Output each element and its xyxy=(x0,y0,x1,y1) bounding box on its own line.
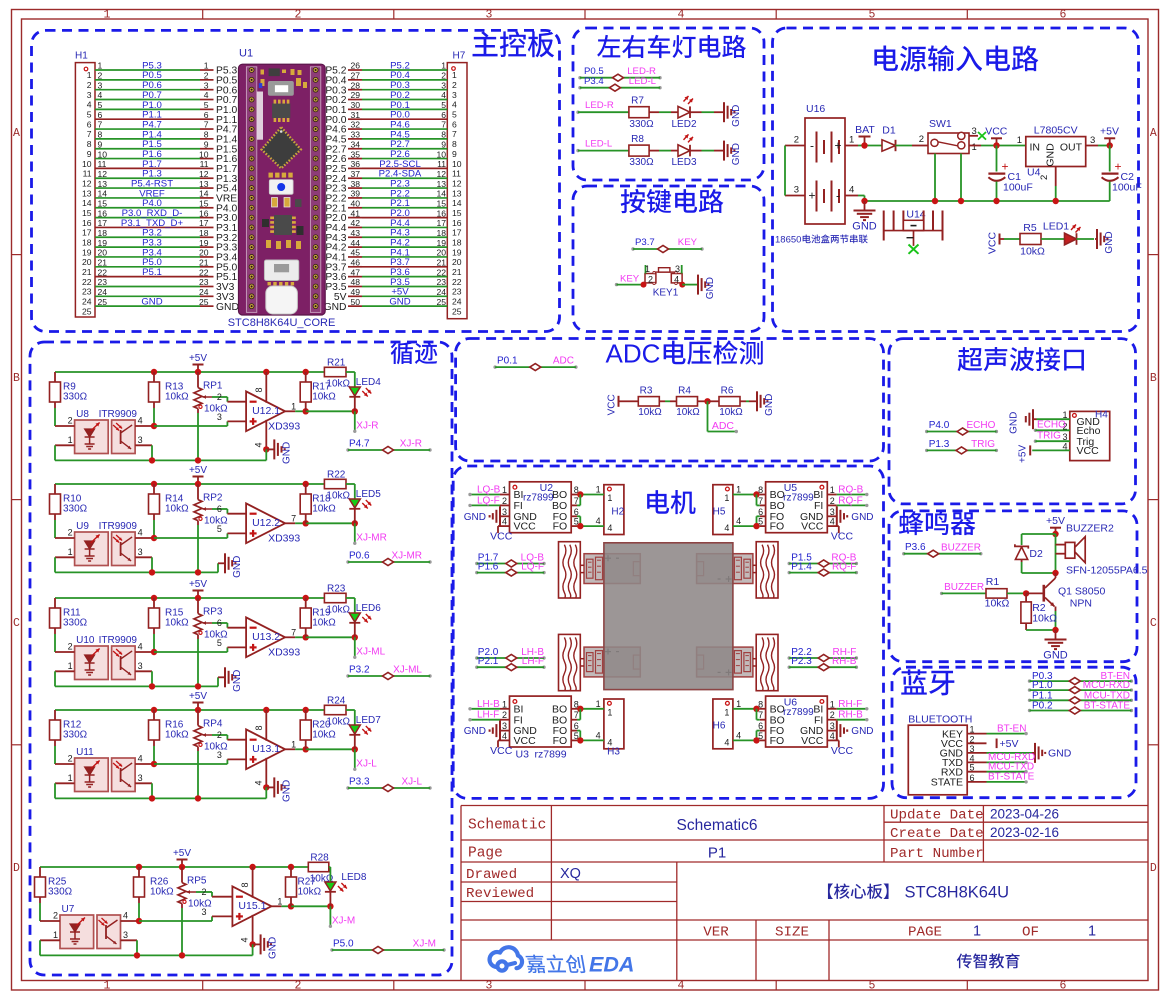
wire R to opto pin2 xyxy=(39,903,41,921)
svg-text:9: 9 xyxy=(98,139,103,149)
svg-text:44: 44 xyxy=(351,238,361,248)
svg-text:6: 6 xyxy=(574,721,579,731)
svg-text:P3.2: P3.2 xyxy=(349,665,370,676)
svg-text:RP5: RP5 xyxy=(187,876,207,887)
JLC EDA logo xyxy=(490,947,522,970)
section box ADC xyxy=(456,339,884,462)
svg-text:24: 24 xyxy=(199,287,209,297)
svg-text:20: 20 xyxy=(199,248,209,258)
wire R21 to LED xyxy=(346,483,355,485)
svg-text:GND: GND xyxy=(852,221,877,233)
svg-text:18: 18 xyxy=(82,237,92,247)
net port P0.3 to BT-EN xyxy=(1028,679,1031,682)
svg-text:GND: GND xyxy=(1048,748,1072,760)
driver GND xyxy=(827,515,837,517)
resistor R17 10k output pullup xyxy=(300,382,311,402)
net port P2.0 to LH-B xyxy=(475,656,478,659)
wire opto pin1 to bottom rail xyxy=(54,783,56,798)
svg-text:1: 1 xyxy=(53,930,58,940)
svg-text:3: 3 xyxy=(830,507,835,517)
svg-text:10kΩ: 10kΩ xyxy=(1032,613,1057,625)
svg-text:12: 12 xyxy=(98,169,108,179)
wire R to opto pin2 xyxy=(54,520,56,538)
car chassis xyxy=(604,543,733,690)
svg-text:XJ-L: XJ-L xyxy=(401,777,422,788)
svg-text:2: 2 xyxy=(68,528,73,538)
svg-text:15: 15 xyxy=(82,208,92,218)
track row +5V rail (R10) xyxy=(55,483,324,485)
svg-text:BAT: BAT xyxy=(855,124,875,136)
comparator U15.1 xyxy=(232,886,271,926)
svg-text:8: 8 xyxy=(254,387,264,392)
no-connect flag on U14 xyxy=(909,245,919,254)
svg-text:19: 19 xyxy=(82,247,92,257)
motor header H2 xyxy=(604,485,624,535)
svg-text:FO: FO xyxy=(553,735,568,747)
svg-text:R28: R28 xyxy=(310,853,329,864)
ground for buzzer xyxy=(1055,630,1057,640)
svg-text:20: 20 xyxy=(82,257,92,267)
power bottom rail xyxy=(865,200,1110,202)
svg-text:24: 24 xyxy=(82,297,92,307)
svg-text:3: 3 xyxy=(217,750,222,760)
svg-text:R5: R5 xyxy=(1023,222,1037,234)
svg-text:1: 1 xyxy=(104,980,111,993)
svg-text:10: 10 xyxy=(199,149,209,159)
svg-text:H6: H6 xyxy=(713,721,726,732)
svg-text:LED-L: LED-L xyxy=(629,76,657,87)
ground for divider xyxy=(755,400,758,402)
resistor R19 10k output pullup xyxy=(300,608,311,628)
svg-text:FO: FO xyxy=(770,735,785,747)
svg-text:U7: U7 xyxy=(62,904,75,915)
svg-text:12: 12 xyxy=(452,178,462,188)
H1 pin 7 wire / net P4.7 xyxy=(95,128,200,130)
svg-text:1: 1 xyxy=(68,435,73,445)
svg-text:3: 3 xyxy=(452,90,457,100)
svg-text:31: 31 xyxy=(351,110,361,120)
svg-text:GND: GND xyxy=(1045,143,1057,167)
svg-text:Q1 S8050: Q1 S8050 xyxy=(1058,586,1105,598)
svg-text:5: 5 xyxy=(869,980,876,993)
svg-text:GND: GND xyxy=(324,302,347,313)
svg-text:1: 1 xyxy=(724,707,729,717)
svg-text:XJ-ML: XJ-ML xyxy=(393,665,422,676)
LED LED8 xyxy=(325,882,336,891)
svg-text:U11: U11 xyxy=(76,747,94,758)
resistor R14 10k pullup xyxy=(149,494,160,514)
potentiometer RP4 10k xyxy=(197,710,199,726)
wire opto pin4 node to comparator plus input xyxy=(154,651,227,653)
svg-text:330Ω: 330Ω xyxy=(63,504,88,515)
H7 pin 21 wire / net P3.7 xyxy=(348,266,362,268)
svg-text:7: 7 xyxy=(87,129,92,139)
svg-text:16: 16 xyxy=(98,208,108,218)
wires wheels to motors xyxy=(580,564,584,566)
svg-text:27: 27 xyxy=(351,71,361,81)
svg-text:25: 25 xyxy=(452,306,462,316)
net flag XJ-L xyxy=(354,749,356,769)
ground at bottom rail xyxy=(217,677,219,686)
LED LED6 xyxy=(349,613,360,622)
net RH-F to driver pin1 xyxy=(827,708,837,710)
svg-text:P1.3: P1.3 xyxy=(929,439,950,450)
title motor xyxy=(647,490,695,514)
driver VCC xyxy=(498,525,510,527)
wire pin4 to bottom rail xyxy=(265,787,267,798)
svg-text:28: 28 xyxy=(351,80,361,90)
svg-text:VCC: VCC xyxy=(831,531,854,543)
optocoupler U8 xyxy=(75,420,109,454)
resistor R13 10k pullup xyxy=(149,382,160,402)
wire battery minus to rail xyxy=(858,195,865,197)
title bluetooth xyxy=(901,669,954,695)
optocoupler U10 xyxy=(75,646,109,680)
svg-text:XJ-MR: XJ-MR xyxy=(391,551,422,562)
motor header H6 xyxy=(713,699,733,749)
svg-text:+5V: +5V xyxy=(189,353,207,364)
svg-text:23: 23 xyxy=(82,287,92,297)
svg-text:RH-B: RH-B xyxy=(832,656,857,667)
svg-text:4: 4 xyxy=(98,90,103,100)
svg-text:14: 14 xyxy=(98,189,108,199)
net MCU-TXD wire xyxy=(987,771,1027,773)
svg-text:1: 1 xyxy=(204,61,209,71)
svg-text:VCC: VCC xyxy=(490,531,513,543)
svg-text:+5V: +5V xyxy=(189,691,207,702)
wire pin4 to bottom rail xyxy=(252,944,254,955)
svg-text:11: 11 xyxy=(452,169,461,179)
svg-text:3: 3 xyxy=(441,80,446,90)
svg-text:3: 3 xyxy=(123,930,128,940)
svg-text:D: D xyxy=(1150,862,1157,875)
svg-text:15: 15 xyxy=(452,208,462,218)
svg-text:VCC: VCC xyxy=(1077,445,1100,457)
svg-text:4: 4 xyxy=(724,523,729,533)
H7 pin 10 wire / net P2.6 xyxy=(348,158,362,160)
resistor R6 10k xyxy=(708,400,720,402)
motor driver U3 rz7899 xyxy=(510,696,572,747)
svg-text:OUT: OUT xyxy=(1060,141,1083,153)
track row +5V rail (R12) xyxy=(55,709,324,711)
svg-text:R8: R8 xyxy=(631,134,644,145)
svg-text:1: 1 xyxy=(830,699,835,709)
net port P3.4 to LED-L xyxy=(578,86,581,89)
svg-text:2: 2 xyxy=(201,887,206,897)
net port P1.1 to MCU-TXD xyxy=(1028,699,1031,702)
net port P1.4 to RQ-F xyxy=(788,571,791,574)
svg-text:1: 1 xyxy=(645,264,650,274)
svg-text:P3.6: P3.6 xyxy=(905,542,926,553)
svg-text:KEY1: KEY1 xyxy=(653,287,679,298)
net port P3.6 to BUZZER xyxy=(902,552,905,555)
wire opto pin4 node to comparator plus input xyxy=(154,537,227,539)
svg-text:10kΩ: 10kΩ xyxy=(165,392,189,403)
svg-text:LED1: LED1 xyxy=(1043,221,1069,233)
svg-text:1: 1 xyxy=(736,699,741,709)
net port P4.7 to XJ-R xyxy=(346,448,349,451)
svg-text:10: 10 xyxy=(452,159,462,169)
svg-text:5: 5 xyxy=(217,638,222,648)
wire battery left loop xyxy=(784,146,786,196)
svg-text:2: 2 xyxy=(295,8,302,21)
svg-text:16: 16 xyxy=(199,208,209,218)
section box motor xyxy=(453,466,883,798)
svg-text:VCC: VCC xyxy=(987,231,999,254)
svg-text:7: 7 xyxy=(291,627,296,637)
svg-text:1: 1 xyxy=(849,135,854,146)
svg-text:XD393: XD393 xyxy=(268,533,300,545)
svg-text:7: 7 xyxy=(574,710,579,720)
svg-text:BUZZER: BUZZER xyxy=(941,542,981,553)
svg-text:P4.7: P4.7 xyxy=(349,439,370,450)
svg-text:1: 1 xyxy=(441,61,446,71)
net TRIG to H4 pin3 xyxy=(1034,440,1037,443)
svg-text:Drawed: Drawed xyxy=(466,867,517,883)
motor header H5 xyxy=(713,485,733,535)
svg-text:1: 1 xyxy=(277,896,282,906)
svg-text:3: 3 xyxy=(502,507,507,517)
svg-text:XJ-M: XJ-M xyxy=(332,915,355,926)
svg-text:GND: GND xyxy=(1009,412,1020,434)
svg-text:330Ω: 330Ω xyxy=(629,119,654,130)
svg-text:H5: H5 xyxy=(713,506,726,517)
driver VCC xyxy=(827,739,839,741)
svg-text:2023-04-26: 2023-04-26 xyxy=(990,807,1059,822)
comparator pin 4 to ground xyxy=(265,420,267,450)
ADC tap wire xyxy=(707,401,709,431)
comparator pin 8 to rail xyxy=(252,867,254,898)
wire opto pin1 to bottom rail xyxy=(39,940,41,955)
H1 pin 14 wire / net VREF xyxy=(95,197,200,199)
track row +5V rail (R9) xyxy=(55,371,324,373)
svg-text:A: A xyxy=(13,127,20,140)
svg-text:3: 3 xyxy=(1090,135,1095,146)
H7 pin 4 wire / net P0.2 xyxy=(348,99,362,101)
svg-text:21: 21 xyxy=(436,258,446,268)
svg-text:35: 35 xyxy=(351,149,361,159)
svg-text:8: 8 xyxy=(98,130,103,140)
net port P3.2 to XJ-ML xyxy=(346,674,349,677)
motor driver U5 rz7899 xyxy=(766,482,828,533)
svg-text:7: 7 xyxy=(758,496,763,506)
wire R21 to LED xyxy=(346,709,355,711)
svg-text:VCC: VCC xyxy=(985,126,1008,138)
net port P2.3 to RH-B xyxy=(788,666,791,669)
svg-text:GND: GND xyxy=(232,556,243,578)
H7 pin 24 wire / net +5V xyxy=(348,295,362,297)
H7 pin 20 wire / net P4.1 xyxy=(348,256,362,258)
H1 pin 22 wire / net P5.1 xyxy=(95,276,200,278)
net ECHO to H4 pin2 xyxy=(1034,429,1037,432)
svg-text:1: 1 xyxy=(291,739,296,749)
H7 pin 15 wire / net P2.1 xyxy=(348,207,362,209)
svg-text:18: 18 xyxy=(98,228,108,238)
header H7 xyxy=(447,63,467,319)
svg-text:BT-EN: BT-EN xyxy=(997,723,1026,734)
svg-text:1: 1 xyxy=(607,493,612,503)
svg-text:LQ-F: LQ-F xyxy=(477,495,500,506)
svg-text:Page: Page xyxy=(468,846,503,862)
svg-text:2023-02-16: 2023-02-16 xyxy=(990,825,1059,840)
comparator output wire xyxy=(285,410,295,412)
svg-text:2: 2 xyxy=(98,71,103,81)
svg-text:LH-F: LH-F xyxy=(522,656,544,667)
svg-text:P1.4: P1.4 xyxy=(791,562,812,573)
svg-text:P5.1: P5.1 xyxy=(142,267,162,278)
svg-text:BLUETOOTH: BLUETOOTH xyxy=(908,713,972,725)
svg-text:6: 6 xyxy=(204,110,209,120)
svg-text:H7: H7 xyxy=(453,51,466,62)
net port P1.5 to RQ-B xyxy=(788,562,791,565)
H1 pin 24 wire / net 3V3 xyxy=(95,295,200,297)
wire pot wiper to comparator minus input xyxy=(212,396,227,398)
svg-text:18: 18 xyxy=(199,228,209,238)
svg-text:10: 10 xyxy=(98,149,108,159)
svg-text:43: 43 xyxy=(351,228,361,238)
svg-text:LED7: LED7 xyxy=(356,715,381,726)
svg-text:4: 4 xyxy=(138,642,143,652)
svg-text:R24: R24 xyxy=(327,696,346,707)
resistor R11 330ohm xyxy=(50,608,61,628)
svg-text:ITR9909: ITR9909 xyxy=(99,635,138,646)
wire pot wiper to comparator minus input xyxy=(212,508,227,510)
title main board xyxy=(473,31,555,57)
svg-text:BT-STATE: BT-STATE xyxy=(1084,701,1131,712)
svg-text:ECHO: ECHO xyxy=(966,420,995,431)
resistor R15 10k pullup xyxy=(149,608,160,628)
svg-text:10: 10 xyxy=(82,159,92,169)
svg-text:50: 50 xyxy=(351,297,361,307)
wire pot wiper to comparator minus input xyxy=(212,734,227,736)
svg-text:LQ-F: LQ-F xyxy=(521,562,544,573)
svg-text:23: 23 xyxy=(199,277,209,287)
svg-text:12: 12 xyxy=(199,169,209,179)
net port P0.6 to XJ-MR xyxy=(346,560,349,563)
svg-text:9: 9 xyxy=(204,139,209,149)
svg-text:GND: GND xyxy=(268,937,279,959)
svg-text:22: 22 xyxy=(199,267,209,277)
svg-text:22: 22 xyxy=(452,277,462,287)
wire opto pin4 node to comparator plus input xyxy=(139,920,212,922)
svg-text:5: 5 xyxy=(869,8,876,21)
H7 pin 23 wire / net P3.5 xyxy=(348,285,362,287)
ground at bottom rail xyxy=(217,563,219,572)
wire R to opto pin2 xyxy=(54,408,56,426)
section box main board xyxy=(32,30,560,331)
svg-text:XD393: XD393 xyxy=(268,421,300,433)
svg-text:2: 2 xyxy=(502,496,507,506)
svg-text:18: 18 xyxy=(452,237,462,247)
motor xyxy=(584,647,640,677)
svg-text:VCC: VCC xyxy=(490,745,513,757)
svg-text:2: 2 xyxy=(53,911,58,921)
svg-text:14: 14 xyxy=(452,198,462,208)
wire opto pin3 to bottom rail xyxy=(136,940,138,955)
potentiometer RP1 10k xyxy=(197,372,199,388)
svg-text:24: 24 xyxy=(436,287,446,297)
net port P1.0 to MCU-RXD xyxy=(1028,688,1031,691)
svg-text:10kΩ: 10kΩ xyxy=(165,618,189,629)
svg-text:20: 20 xyxy=(436,248,446,258)
svg-text:KEY: KEY xyxy=(678,237,698,248)
svg-text:3: 3 xyxy=(204,80,209,90)
svg-text:39: 39 xyxy=(351,189,361,199)
svg-text:1: 1 xyxy=(596,485,601,495)
svg-text:10kΩ: 10kΩ xyxy=(985,598,1010,610)
ultrasonic header H4 xyxy=(1070,411,1110,460)
H1 pin 9 wire / net P1.5 xyxy=(95,148,200,150)
svg-text:1: 1 xyxy=(724,493,729,503)
svg-text:-: - xyxy=(810,139,814,153)
H1 pin 8 wire / net P1.4 xyxy=(95,138,200,140)
svg-text:L7805CV: L7805CV xyxy=(1034,125,1078,137)
svg-text:1: 1 xyxy=(68,547,73,557)
svg-text:7: 7 xyxy=(204,120,209,130)
wire pot wiper to comparator minus input xyxy=(196,891,212,893)
svg-text:rz7899: rz7899 xyxy=(523,493,554,504)
net BT-STATE wire xyxy=(987,781,1027,783)
svg-text:3: 3 xyxy=(87,90,92,100)
svg-text:D2: D2 xyxy=(1029,548,1043,560)
wire R21 to LED xyxy=(329,866,331,868)
svg-text:1: 1 xyxy=(973,924,981,940)
svg-text:2: 2 xyxy=(87,80,92,90)
svg-text:10kΩ: 10kΩ xyxy=(326,379,350,390)
svg-text:4: 4 xyxy=(138,528,143,538)
svg-text:SFN-12055PA6.5: SFN-12055PA6.5 xyxy=(1066,565,1148,577)
svg-text:7: 7 xyxy=(291,513,296,523)
svg-text:A: A xyxy=(1150,127,1157,140)
svg-text:6: 6 xyxy=(87,119,92,129)
net port P1.3 to TRIG xyxy=(925,449,928,452)
ground under battery xyxy=(861,198,867,204)
net RH-B to driver pin2 xyxy=(827,719,837,721)
svg-text:4: 4 xyxy=(849,185,854,196)
svg-text:GND: GND xyxy=(281,780,292,802)
svg-text:ADC: ADC xyxy=(606,339,661,369)
svg-text:2: 2 xyxy=(919,134,924,145)
svg-text:RP2: RP2 xyxy=(203,493,223,504)
optocoupler U11 xyxy=(75,758,109,792)
svg-text:RH-B: RH-B xyxy=(838,710,863,721)
net port P3.7 to KEY xyxy=(631,247,634,250)
svg-text:XJ-M: XJ-M xyxy=(413,939,436,950)
svg-text:7: 7 xyxy=(98,120,103,130)
svg-text:rz7899: rz7899 xyxy=(535,749,567,761)
wire opto pin3 to bottom rail xyxy=(151,671,153,686)
svg-text:SW1: SW1 xyxy=(929,118,952,130)
svg-text:R7: R7 xyxy=(631,96,644,107)
resistor R9 330ohm xyxy=(50,382,61,402)
H1 pin 16 wire / net P3.0_RXD_D- xyxy=(95,217,200,219)
board title 【核心板】STC8H8K64U xyxy=(828,883,889,898)
svg-text:rz7899: rz7899 xyxy=(783,493,814,504)
section box line tracking xyxy=(30,342,452,975)
H7 pin 7 wire / net P4.6 xyxy=(348,128,362,130)
comparator U12.2 xyxy=(246,503,285,543)
H7 pin 6 wire / net P0.0 xyxy=(348,118,362,120)
resistor R18 10k output pullup xyxy=(300,494,311,514)
title line tracking xyxy=(391,342,438,365)
track row bottom rail xyxy=(55,685,218,687)
wire R21 to LED xyxy=(346,371,355,373)
svg-text:330Ω: 330Ω xyxy=(63,392,88,403)
svg-text:3: 3 xyxy=(138,661,143,671)
wire R to opto pin2 xyxy=(54,746,56,764)
svg-text:25: 25 xyxy=(82,306,92,316)
H1 pin 25 wire / net GND xyxy=(95,305,200,307)
